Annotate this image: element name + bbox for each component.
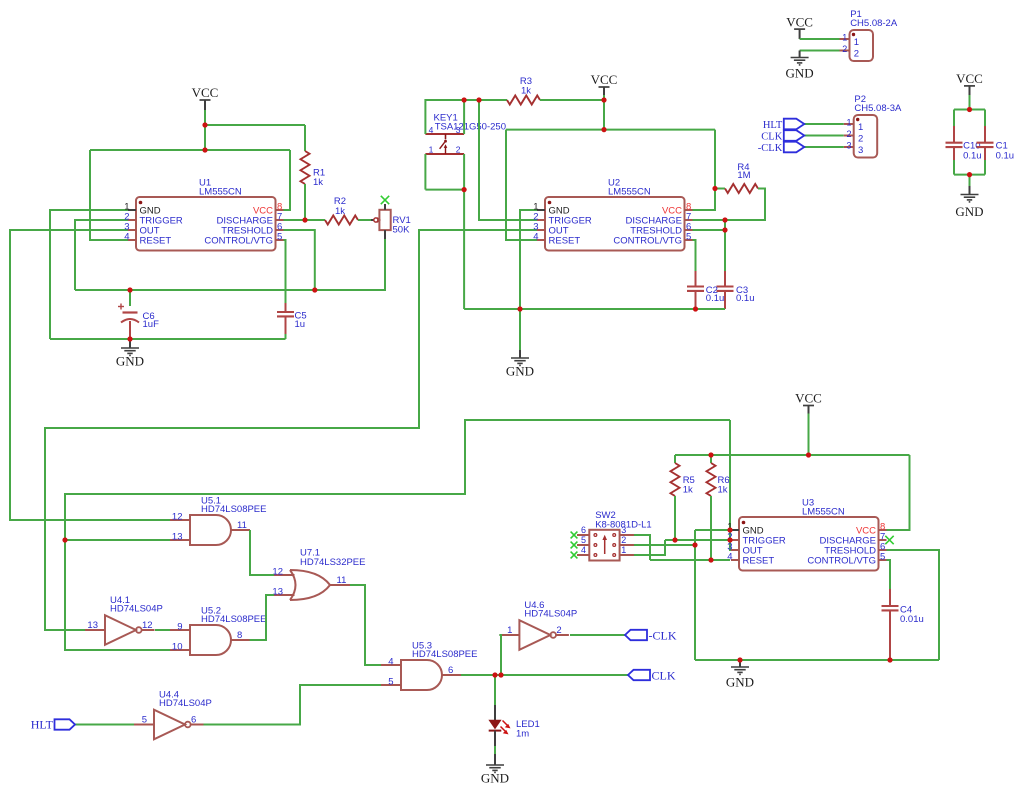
svg-text:2: 2 [842, 44, 847, 54]
power VCC [794, 28, 805, 30]
svg-text:0.1u: 0.1u [736, 293, 755, 304]
junction (740,660) [737, 657, 742, 662]
wire R1 top lead [304, 125, 306, 151]
no-connect X [381, 196, 389, 204]
svg-text:5: 5 [581, 535, 586, 545]
U1 pin 6 stub [276, 229, 284, 231]
junction (695,309) [693, 306, 698, 311]
GND stem P1 [799, 51, 801, 58]
wire up to U4.6 input [499, 635, 501, 675]
svg-text:4: 4 [581, 545, 586, 555]
wire R6 top lead [710, 455, 712, 463]
U4.4 output bubble [185, 722, 191, 728]
junction (969.5,174.6) [967, 172, 972, 177]
capacitor C1 lead [984, 126, 986, 143]
svg-text:3: 3 [858, 145, 863, 156]
svg-text:1: 1 [858, 122, 863, 133]
wire R4 left lead [715, 188, 725, 190]
U5.2 input pin 9 stub [170, 629, 190, 631]
junction (464,190) [462, 187, 467, 192]
power VCC [200, 99, 211, 101]
ground [731, 667, 749, 674]
SW2 arrow [602, 535, 607, 554]
U4.1 input pin 13 stub [85, 629, 105, 631]
svg-text:HD74LS08PEE: HD74LS08PEE [412, 649, 477, 660]
wire C1 bottom [984, 160, 986, 175]
wire -CLK to P2 [804, 146, 843, 148]
svg-text:VCC: VCC [192, 85, 219, 100]
wire U2 GND pin1 down [520, 210, 537, 350]
junction (711,455) [708, 452, 713, 457]
wire U1 OUT pin3 to U5.1 pin12 [10, 230, 170, 520]
U2 pin 4 stub [537, 239, 545, 241]
C2 bottom lead [695, 291, 697, 309]
svg-text:RESET: RESET [743, 555, 775, 566]
wire VCC rail U3 [675, 454, 910, 456]
svg-text:2: 2 [846, 129, 851, 139]
VCC stem [799, 29, 801, 39]
no-connect X [571, 552, 578, 559]
port -CLK [784, 142, 805, 153]
port CLK [784, 130, 805, 141]
U5.3 output pin 6 stub [442, 674, 461, 676]
wire HLT to P2 [804, 123, 843, 125]
svg-text:VCC: VCC [591, 72, 618, 87]
ground [121, 348, 139, 355]
svg-text:3: 3 [846, 140, 851, 150]
LED1 arrows [501, 721, 511, 735]
junction (520,309) [517, 306, 522, 311]
U3 pin 3 stub [731, 549, 739, 551]
resistor R5 [671, 463, 680, 496]
capacitor C5 top lead [285, 303, 287, 312]
U5.2 input pin 10 stub [170, 649, 190, 651]
wire C10 top [953, 110, 955, 127]
svg-text:TSA121G50-250: TSA121G50-250 [435, 122, 506, 133]
svg-text:1: 1 [846, 117, 851, 127]
wire VCC to P1 pin1 [800, 38, 840, 40]
ground [961, 195, 979, 202]
wire to U2 TRIGGER pin2 [479, 100, 537, 220]
svg-text:VCC: VCC [786, 14, 813, 29]
AND gate U5.2 body [190, 625, 231, 655]
IC U1 LM555CN body [136, 197, 276, 251]
resistor R4 [725, 184, 758, 193]
junction (604,130) [601, 127, 606, 132]
svg-text:HD74LS04P: HD74LS04P [524, 609, 577, 620]
junction (725,230) [722, 227, 727, 232]
svg-text:2: 2 [621, 535, 626, 545]
wire pins 6-7 down to C3 [724, 220, 726, 271]
NOT gate U4.4 body [154, 710, 185, 740]
LED LED1 [494, 705, 496, 720]
junction (604,100) [601, 97, 606, 102]
VCC stem wire [808, 406, 810, 414]
U1 pin 2 stub [128, 219, 136, 221]
wire RV1 bottom along trigger rail [75, 239, 385, 290]
wire R1 bottom to pin7 node [304, 184, 306, 220]
junction (725,220) [722, 217, 727, 222]
junction (501,675) [498, 672, 503, 677]
wire U4.1 out to U5.2 pin9 [155, 629, 170, 631]
svg-text:GND: GND [726, 674, 754, 689]
U7.1 output pin 11 stub [330, 584, 350, 586]
svg-text:4: 4 [533, 232, 538, 243]
U3 pin 4 stub [731, 559, 739, 561]
junction (969.5,109.5) [967, 107, 972, 112]
junction (464,100) [462, 97, 467, 102]
wire U7.1 out to U5.3 pin4 [350, 585, 381, 665]
wire U3 GND pin1 down to rail [694, 530, 696, 660]
wire LED to GND [494, 746, 496, 754]
SW2 pin 6 stub [577, 534, 589, 536]
svg-text:0.1u: 0.1u [706, 293, 725, 304]
svg-text:5: 5 [686, 232, 691, 243]
SW2 pin 4 stub [577, 554, 589, 556]
svg-text:1k: 1k [313, 177, 323, 188]
wire to U1 VCC pin8 [283, 150, 290, 210]
wire U1 pin7 to R2 [283, 219, 325, 221]
U4.1 output bubble [136, 627, 142, 633]
svg-text:13: 13 [272, 586, 283, 597]
svg-text:LM555CN: LM555CN [608, 187, 651, 198]
U4.6 output pin 2 stub [555, 634, 569, 636]
wire U2 ground rail [464, 308, 725, 310]
power VCC [964, 85, 975, 87]
wire U3 TRIGGER pin2 [665, 539, 730, 541]
wire U1 ground rail [50, 338, 286, 340]
resistor R6 [707, 463, 716, 496]
wire U5.1 out to U7.1 pin12 [250, 530, 274, 575]
wire U2 OUT pin3 to U4.1 input [45, 230, 537, 630]
no-connect X [571, 542, 578, 549]
wire U3 pin1 horizontal [695, 529, 730, 531]
svg-text:13: 13 [172, 531, 183, 542]
U1 pin1 marker [139, 201, 143, 205]
junction (730,540) [727, 537, 732, 542]
U1 pin 5 stub [276, 239, 284, 241]
power VCC [803, 405, 814, 407]
U3 pin 7 stub [879, 539, 887, 541]
wire U5.3 out to CLK port [461, 674, 628, 676]
AND gate U5.3 body [401, 660, 442, 690]
P2 pin 2 stub [844, 135, 854, 137]
SW2 pin 2 stub [620, 544, 634, 546]
junction (314.8,290) [312, 287, 317, 292]
svg-text:4: 4 [388, 656, 393, 667]
wire U3 OUT feedback to U5.2 pin10 [65, 420, 730, 650]
U1 pin 3 stub [128, 229, 136, 231]
svg-text:GND: GND [786, 65, 814, 80]
port HLT [55, 719, 76, 729]
svg-text:CH5.08-3A: CH5.08-3A [854, 103, 902, 114]
U1 pin 4 stub [128, 239, 136, 241]
switch SW2 body [589, 530, 619, 561]
ground [791, 58, 809, 65]
svg-text:12: 12 [172, 511, 183, 522]
svg-text:2: 2 [858, 134, 863, 145]
svg-text:VCC: VCC [795, 391, 822, 406]
C6 plus sign [118, 304, 124, 310]
junction (305,220) [302, 217, 307, 222]
U3 pin 1 stub [731, 529, 739, 531]
svg-text:6: 6 [581, 525, 586, 535]
capacitor C10 [946, 142, 963, 144]
U2 pin 7 stub [685, 219, 693, 221]
no-connect X [571, 532, 578, 539]
wire VCC rail upper [90, 149, 290, 151]
wire VCC down to U2 rail [603, 95, 605, 130]
U2 pin 3 stub [537, 229, 545, 231]
P2 pin1 marker [856, 118, 859, 121]
C10 lead [953, 147, 955, 160]
P1 pin1 marker [852, 33, 855, 36]
U4.4 input pin 5 stub [134, 724, 154, 726]
wire KEY1 pin1 down [424, 154, 426, 190]
wire VCC to R1 [205, 124, 305, 126]
C6 bottom lead [129, 321, 131, 339]
connector P1 body [850, 30, 874, 61]
wire U4.6 out to -CLK port [570, 634, 625, 636]
junction (675,540) [672, 537, 677, 542]
junction (130,339) [127, 336, 132, 341]
U5.1 input pin 13 stub [170, 539, 190, 541]
U5.2 output pin 8 stub [231, 639, 250, 641]
svg-text:6: 6 [191, 715, 196, 726]
junction (479,100) [476, 97, 481, 102]
wire GND to P1 pin2 [800, 50, 840, 52]
C1 lead [984, 147, 986, 160]
svg-text:CLK: CLK [761, 132, 782, 143]
wire to U2 VCC pin8 [692, 130, 715, 210]
svg-text:CH5.08-2A: CH5.08-2A [850, 18, 898, 29]
SW2 pin 3 stub [620, 534, 634, 536]
junction (695,545) [692, 542, 697, 547]
junction (65,540) [62, 537, 67, 542]
wire CLK to P2 [804, 135, 843, 137]
U7.1 input pin 13 stub [274, 594, 295, 596]
VCC stem [969, 86, 971, 95]
U5.1 output pin 11 stub [231, 529, 250, 531]
wire KEY1 pin4 to R3 [425, 100, 507, 134]
ground [511, 358, 529, 365]
junction (711,560) [708, 557, 713, 562]
P1 pin 2 stub [840, 50, 850, 52]
svg-text:HD74LS08PEE: HD74LS08PEE [201, 614, 266, 625]
svg-text:11: 11 [337, 575, 347, 586]
capacitor C6 polarized [123, 311, 138, 313]
svg-text:GND: GND [116, 354, 144, 369]
VCC stem wire [204, 100, 206, 110]
wire U5.2 out to U7.1 pin13 [250, 595, 274, 640]
wire caps top rail [954, 109, 985, 111]
wire HLT to U4.4 input [75, 724, 134, 726]
svg-text:HD74LS04P: HD74LS04P [110, 604, 163, 615]
P1 pin 1 stub [840, 38, 850, 40]
switch KEY1 body [425, 133, 464, 135]
wire caps bottom rail [954, 174, 985, 176]
OR gate U7.1 body [290, 570, 330, 600]
svg-text:K8-8081D-L1: K8-8081D-L1 [595, 519, 652, 530]
svg-text:HD74LS32PEE: HD74LS32PEE [300, 557, 365, 568]
svg-text:LM555CN: LM555CN [199, 187, 242, 198]
svg-text:4: 4 [124, 232, 129, 243]
port CLK [628, 670, 650, 680]
junction (205,125) [202, 122, 207, 127]
GND stem U1 [129, 339, 131, 348]
svg-text:1u: 1u [295, 319, 306, 330]
U5.1 input pin 12 stub [170, 519, 190, 521]
SW2 pin 5 stub [577, 544, 589, 546]
wire KEY1 pin3 up [463, 100, 465, 134]
svg-text:HD74LS04P: HD74LS04P [159, 698, 212, 709]
U2 pin1 marker [548, 201, 552, 205]
wire U1 CONTROL pin5 to C5 [283, 240, 286, 303]
AND gate U5.1 body [190, 515, 231, 545]
wire C1 top [984, 110, 986, 127]
svg-text:5: 5 [277, 232, 282, 243]
NOT gate U4.1 body [105, 615, 136, 645]
IC U2 LM555CN body [545, 197, 685, 251]
GND stem U3 [739, 660, 741, 667]
svg-text:CONTROL/VTG: CONTROL/VTG [807, 555, 876, 566]
svg-text:GND: GND [506, 364, 534, 379]
svg-text:9: 9 [177, 621, 182, 632]
U2 pin 5 stub [685, 239, 693, 241]
potentiometer RV1 [371, 219, 374, 221]
LED1 lead [494, 754, 496, 765]
port HLT [784, 119, 805, 130]
svg-text:1: 1 [507, 625, 512, 636]
svg-text:GND: GND [955, 204, 983, 219]
RV1 bottom stem [384, 230, 386, 239]
svg-text:1k: 1k [335, 206, 345, 217]
svg-text:0.01u: 0.01u [900, 614, 924, 625]
wire R4 to U2 DISCHARGE pin7 [692, 189, 765, 221]
capacitor C3 [717, 285, 734, 287]
svg-text:11: 11 [237, 520, 247, 531]
C5 bottom lead [285, 317, 287, 335]
U4.1 output pin 12 stub [141, 629, 155, 631]
U4.4 output pin 6 stub [190, 724, 204, 726]
svg-text:HLT: HLT [763, 120, 783, 131]
wire U1 TRIGGER pin2 down [75, 220, 128, 290]
svg-text:12: 12 [142, 620, 153, 631]
wire R6 bottom to reset net [710, 496, 712, 560]
capacitor C4 top lead [889, 589, 891, 606]
U5.3 input pin 4 stub [381, 664, 401, 666]
svg-text:1: 1 [429, 144, 434, 154]
IC U3 LM555CN body [739, 517, 879, 571]
LED1 bottom lead [494, 731, 496, 746]
svg-text:RESET: RESET [549, 235, 581, 246]
svg-text:5: 5 [880, 552, 885, 563]
wire feedback to U5.1 pin13 [65, 539, 170, 541]
svg-text:1uF: 1uF [143, 319, 160, 330]
svg-text:50K: 50K [393, 224, 411, 235]
port -CLK [625, 630, 647, 640]
U4.6 output bubble [550, 632, 556, 638]
svg-text:0.1u: 0.1u [996, 150, 1015, 161]
SW2 pin 1 stub [620, 554, 634, 556]
svg-text:4: 4 [429, 125, 434, 135]
svg-text:RESET: RESET [140, 235, 172, 246]
U3 pin 5 stub [879, 559, 887, 561]
svg-text:5: 5 [142, 715, 147, 726]
junction (495,675) [492, 672, 497, 677]
wire U3 CONTROL pin5 to C4 [887, 560, 891, 589]
power VCC [599, 86, 610, 88]
VCC stem wire [603, 87, 605, 95]
svg-text:4: 4 [727, 552, 732, 563]
svg-text:LM555CN: LM555CN [802, 507, 845, 518]
U1 pin 7 stub [276, 219, 284, 221]
svg-text:HLT: HLT [31, 718, 54, 732]
KEY1 lever [440, 134, 448, 154]
U3 pin 2 stub [731, 539, 739, 541]
svg-text:13: 13 [87, 620, 98, 631]
U5.3 input pin 5 stub [381, 684, 401, 686]
wire C6 top lead [129, 290, 131, 306]
svg-text:CLK: CLK [652, 668, 676, 682]
svg-text:2: 2 [854, 49, 859, 60]
capacitor C2 [687, 285, 704, 287]
wire KEY1 pin2 down [463, 154, 465, 190]
U3 pin 6 stub [879, 549, 887, 551]
capacitor C1 [977, 142, 994, 144]
wire U1 GND pin1 down [50, 210, 128, 339]
SW2 contacts [594, 534, 616, 557]
wire to U2 RESET pin4 [506, 130, 537, 240]
wire VCC down U3 [808, 414, 810, 456]
U3 pin 8 stub [879, 529, 887, 531]
svg-text:-CLK: -CLK [758, 143, 783, 154]
svg-text:6: 6 [448, 665, 453, 676]
no-connect X [885, 536, 893, 544]
wire KEY1 bottom rail [425, 189, 464, 191]
wire SW2 pin2 to ground net [634, 544, 695, 546]
svg-text:CONTROL/VTG: CONTROL/VTG [204, 235, 273, 246]
GND stem C1 [969, 186, 971, 195]
wire U3 TRESHOLD pin6 to ground rail [887, 550, 940, 660]
U2 pin 1 stub [537, 209, 545, 211]
P2 pin 3 stub [844, 146, 854, 148]
wire U1 TRESHOLD pin6 down [283, 230, 315, 290]
junction (130,290) [127, 287, 132, 292]
wire feedback to U3 OUT pin3 [730, 420, 739, 550]
junction (715,188.5) [712, 186, 717, 191]
wire R5 top lead [674, 455, 676, 463]
svg-text:VCC: VCC [956, 71, 983, 86]
svg-text:0.1u: 0.1u [963, 150, 982, 161]
connector P2 body [854, 115, 878, 158]
wire SW2 pin3 to reset net [634, 535, 650, 560]
junction (730,530) [727, 527, 732, 532]
wire U2 TRESHOLD pin6 [692, 229, 725, 231]
wire LED top [494, 675, 496, 705]
svg-text:1: 1 [842, 32, 847, 42]
U1 pin 1 stub [128, 209, 136, 211]
U2 pin 8 stub [685, 209, 693, 211]
wire U2 CONTROL pin5 to C2 [692, 240, 696, 271]
wire C5 to rail [285, 334, 287, 339]
C3 bottom lead [724, 291, 726, 309]
U1 pin 8 stub [276, 209, 284, 211]
wire caps to GND [969, 175, 971, 186]
wire U3 RESET pin4 [650, 559, 730, 561]
wire VCC to caps [969, 95, 971, 110]
svg-text:8: 8 [237, 630, 242, 641]
